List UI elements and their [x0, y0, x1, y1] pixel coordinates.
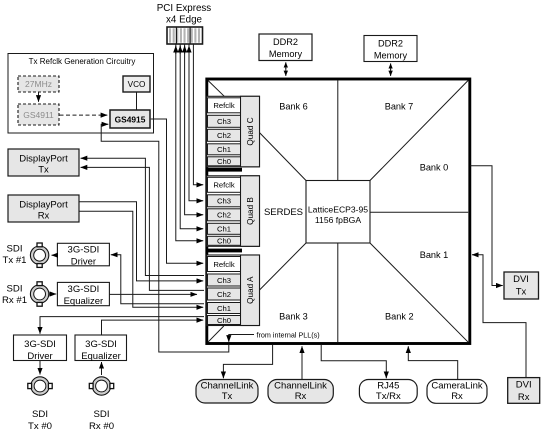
svg-text:1156 fpBGA: 1156 fpBGA	[315, 215, 361, 225]
connector BNC SDI Rx #0	[89, 377, 113, 395]
wire 27MHz to GS4911	[38, 93, 40, 102]
box 3G-SDI Equalizer #1	[57, 282, 109, 307]
svg-text:Tx/Rx: Tx/Rx	[376, 391, 401, 402]
box DDR2 Memory (left)	[259, 34, 312, 61]
svg-text:Equalizer: Equalizer	[81, 351, 121, 362]
svg-text:Bank 3: Bank 3	[279, 311, 308, 321]
svg-text:Bank 0: Bank 0	[420, 163, 449, 173]
wire 3G-SDI Equalizer #1 output toward Quad A Ch2	[110, 293, 197, 295]
wire PCIe lane 0 (bidirectional, connector to Quad B Ch3)	[176, 45, 203, 241]
svg-text:PCI Express: PCI Express	[157, 3, 212, 14]
svg-text:ChannelLink: ChannelLink	[201, 381, 254, 392]
wire PCIe reference clock to Quad B Refclk	[193, 45, 203, 185]
svg-text:Memory: Memory	[269, 49, 303, 59]
svg-text:SDI: SDI	[7, 284, 23, 295]
wire DVI Rx into FPGA Bank 1	[472, 255, 526, 377]
svg-text:Bank 2: Bank 2	[385, 311, 414, 321]
connector BNC SDI Rx #1	[30, 282, 48, 306]
wire 3G-SDI Driver #0 to BNC Tx #0	[39, 361, 41, 375]
svg-text:Tx: Tx	[222, 391, 233, 402]
svg-text:Ch2: Ch2	[217, 211, 231, 220]
svg-text:Rx: Rx	[38, 211, 50, 222]
svg-text:Ch1: Ch1	[217, 225, 231, 234]
wire from internal PLL to GS4915	[101, 124, 229, 352]
svg-text:DVI: DVI	[516, 380, 532, 391]
wire BNC Rx #0 to 3G-SDI Equalizer #0	[101, 362, 103, 375]
wire DisplayPort Rx output to Quad A Ch3	[80, 202, 204, 281]
svg-text:GS4915: GS4915	[115, 115, 146, 125]
svg-text:Tx #1: Tx #1	[3, 255, 27, 266]
svg-text:Tx Refclk Generation Circuitry: Tx Refclk Generation Circuitry	[29, 57, 136, 66]
wire Quad A Ch3 output to DisplayPort Tx (upper)	[81, 158, 204, 275]
box 3G-SDI Equalizer #0	[75, 335, 127, 362]
svg-text:DisplayPort: DisplayPort	[19, 200, 68, 211]
svg-text:Ch0: Ch0	[217, 237, 231, 246]
svg-text:DVI: DVI	[513, 274, 529, 285]
svg-text:3G-SDI: 3G-SDI	[85, 339, 117, 350]
svg-text:Ch0: Ch0	[217, 157, 231, 166]
svg-text:Bank 6: Bank 6	[279, 101, 308, 111]
svg-text:VCO: VCO	[128, 80, 146, 89]
svg-text:Ch3: Ch3	[217, 197, 231, 206]
svg-text:Driver: Driver	[71, 256, 96, 267]
wire PCIe lane 2 (bidirectional, connector to Quad B Ch1)	[185, 45, 204, 215]
box DisplayPort Tx	[8, 149, 79, 176]
wire PCIe lane 3 (bidirectional, connector to Quad B Ch0)	[189, 45, 203, 201]
box RJ45 Tx/Rx	[359, 380, 417, 404]
svg-text:SERDES: SERDES	[264, 207, 303, 218]
box DisplayPort Rx	[8, 195, 79, 222]
bank partition lines	[208, 80, 468, 342]
connector BNC SDI Tx #1	[30, 243, 48, 267]
svg-text:Tx: Tx	[516, 287, 527, 298]
wire FPGA to RJ45	[321, 345, 386, 379]
svg-text:Tx #0: Tx #0	[28, 421, 52, 432]
svg-text:Ch2: Ch2	[217, 290, 231, 299]
svg-text:DDR2: DDR2	[273, 37, 298, 47]
box 3G-SDI Driver #0	[14, 335, 67, 362]
svg-text:Ch0: Ch0	[217, 316, 231, 325]
box 3G-SDI Driver #1	[57, 243, 109, 267]
svg-text:Quad A: Quad A	[246, 276, 255, 304]
box DVI Tx	[504, 272, 539, 299]
wire GS4911 to GS4915 (dashed)	[60, 114, 108, 116]
svg-text:Ch1: Ch1	[217, 304, 231, 313]
svg-text:SDI: SDI	[32, 409, 48, 420]
svg-text:Memory: Memory	[374, 51, 408, 61]
separator bar between Quad C and Quad B	[206, 168, 242, 172]
wire Quad A Ch0 output to 3G-SDI Driver #0	[40, 317, 204, 334]
svg-text:DisplayPort: DisplayPort	[19, 154, 68, 165]
svg-text:CameraLink: CameraLink	[431, 381, 482, 392]
FPGA LatticeECP3-95 outline	[207, 79, 470, 344]
svg-text:Refclk: Refclk	[213, 260, 235, 269]
chip GS4911 (dashed, optional)	[18, 104, 59, 125]
svg-text:Ch3: Ch3	[217, 276, 231, 285]
svg-text:x4 Edge: x4 Edge	[166, 15, 203, 26]
chip GS4915 clock cleaner	[110, 110, 150, 128]
svg-text:Refclk: Refclk	[213, 181, 235, 190]
box ChannelLink Rx	[268, 380, 333, 404]
svg-text:ChannelLink: ChannelLink	[274, 381, 327, 392]
svg-text:SDI: SDI	[7, 244, 23, 255]
svg-text:3G-SDI: 3G-SDI	[24, 339, 56, 350]
svg-text:Refclk: Refclk	[213, 101, 235, 110]
box ChannelLink Tx	[196, 380, 258, 404]
box DDR2 Memory (right)	[364, 36, 417, 62]
connector J1 PCI Express x4 edge	[167, 27, 203, 44]
svg-text:Rx #1: Rx #1	[2, 295, 27, 306]
wire VCO to GS4915	[136, 93, 138, 111]
separator bar between Quad B and Quad A	[206, 249, 242, 253]
svg-text:Driver: Driver	[27, 351, 52, 362]
wire DisplayPort Rx output to Quad A Ch1	[80, 211, 204, 307]
svg-text:Ch3: Ch3	[217, 117, 231, 126]
connector BNC SDI Tx #0	[28, 377, 52, 395]
box CameraLink Rx	[427, 380, 487, 404]
wire FPGA to ChannelLink Tx	[223, 345, 272, 379]
wire BNC Rx #1 to 3G-SDI Equalizer #1	[49, 293, 56, 295]
svg-text:RJ45: RJ45	[377, 381, 399, 392]
svg-text:Tx: Tx	[38, 165, 49, 176]
svg-text:3G-SDI: 3G-SDI	[68, 245, 100, 256]
svg-text:Bank 1: Bank 1	[420, 250, 449, 260]
svg-text:DDR2: DDR2	[378, 39, 403, 49]
SERDES Quad C	[207, 96, 260, 167]
wire CameraLink Rx into FPGA	[408, 346, 457, 379]
svg-text:Rx: Rx	[295, 391, 307, 402]
svg-text:3G-SDI: 3G-SDI	[68, 284, 100, 295]
wire ChannelLink Rx into FPGA	[301, 346, 303, 379]
svg-text:SDI: SDI	[94, 409, 110, 420]
wire Quad A Ch1 output to 3G-SDI Driver #1	[111, 255, 204, 304]
svg-text:LatticeECP3-95: LatticeECP3-95	[308, 205, 368, 215]
wire DDR2 right bidirectional arrow	[390, 63, 392, 70]
svg-text:GS4911: GS4911	[23, 110, 54, 120]
svg-text:from internal PLL(s): from internal PLL(s)	[257, 331, 320, 340]
oscillator 27MHz (dashed, optional)	[18, 76, 59, 92]
svg-text:Rx #0: Rx #0	[89, 421, 114, 432]
SERDES Quad A	[207, 255, 260, 326]
wire GS4915 output to Quad A Refclk	[151, 119, 203, 263]
chip core LatticeECP3-95 1156 fpBGA	[306, 181, 370, 244]
wire PLL leader arrow into FPGA bottom edge	[229, 335, 254, 342]
svg-text:Quad C: Quad C	[246, 117, 255, 145]
box Tx Refclk Generation Circuitry	[8, 54, 154, 134]
svg-text:Rx: Rx	[451, 391, 463, 402]
SERDES Quad B	[207, 176, 260, 247]
box DVI Rx	[508, 378, 540, 404]
svg-text:Ch1: Ch1	[217, 145, 231, 154]
svg-text:Equalizer: Equalizer	[64, 296, 104, 307]
svg-text:Rx: Rx	[518, 392, 530, 403]
svg-text:Bank 7: Bank 7	[385, 101, 414, 111]
wire FPGA Bank 0 to DVI Tx	[470, 166, 502, 286]
wire 3G-SDI Driver #1 to BNC Tx #1	[52, 254, 58, 256]
oscillator VCO	[123, 76, 150, 92]
svg-text:Ch2: Ch2	[217, 131, 231, 140]
wire Quad A Ch2 output to DisplayPort Tx (lower)	[81, 167, 204, 290]
wire 3G-SDI Equalizer #0 output to Quad A Ch0	[102, 320, 204, 335]
svg-text:27MHz: 27MHz	[25, 79, 52, 89]
wire DDR2 left bidirectional arrow	[285, 62, 287, 69]
svg-text:Quad B: Quad B	[246, 197, 255, 225]
wire PCIe lane 1 (bidirectional, connector to Quad B Ch2)	[180, 45, 203, 229]
